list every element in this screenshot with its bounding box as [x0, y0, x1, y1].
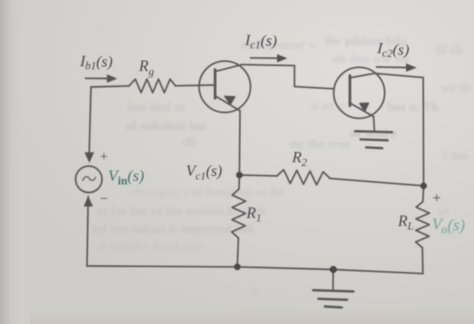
- svg-text:dli: dli: [182, 134, 197, 149]
- wire: bottom rail: [87, 266, 423, 274]
- svg-text:f dm: f dm: [443, 148, 469, 163]
- current arrow Ib1: [86, 75, 117, 83]
- wire: R2 to right node: [330, 178, 424, 185]
- Q2 collector lead: [350, 73, 375, 78]
- wire: Q2 collector to top-right corner: [375, 73, 424, 77]
- arrow into source (bottom, pointing up): [84, 197, 92, 207]
- wire: Q1 collector to step to Q2 base: [242, 65, 334, 89]
- svg-text:A: A: [250, 286, 258, 298]
- resistor R1: [232, 189, 246, 238]
- svg-text:+: +: [100, 150, 108, 165]
- transistor Q1 circle: [199, 61, 250, 112]
- Q1 base lead: [199, 84, 215, 86]
- wire: node Vc1 to R2: [239, 174, 277, 177]
- svg-text:nl milsiinti lno: nl milsiinti lno: [126, 118, 206, 133]
- wire: right vertical (top): [422, 78, 424, 186]
- voltage source Vin circle: [76, 166, 102, 192]
- svg-text:−: −: [100, 192, 108, 207]
- Q2 emitter lead: [350, 103, 374, 117]
- resistor Rg: [129, 79, 175, 93]
- svg-text:a trolsler forsktion: a trolsler forsktion: [100, 238, 204, 253]
- Q1 base bar: [214, 70, 217, 99]
- wire: R1 to bottom rail: [237, 238, 238, 267]
- svg-text:+: +: [433, 191, 441, 207]
- Q1 emitter lead: [215, 96, 240, 111]
- node: RL top junction dot: [420, 183, 427, 190]
- Q1 collector lead: [215, 65, 242, 72]
- svg-text:Ic1(s): Ic1(s): [244, 32, 277, 52]
- wire: right node down to RL: [422, 186, 425, 202]
- svg-text:Ib1(s): Ib1(s): [79, 53, 113, 73]
- Q2 base bar: [349, 76, 352, 106]
- wire: top-left horizontal from corner to Rg: [91, 86, 129, 87]
- arrow into source (top, pointing down): [85, 153, 94, 163]
- svg-text:lmi iiml nt: lmi iiml nt: [128, 99, 186, 114]
- svg-text:ill sh: ill sh: [436, 42, 463, 57]
- svg-text:sbnoqsar s ni benjizsb or lte: sbnoqsar s ni benjizsb or lte: [130, 184, 285, 199]
- node: ground stem junction dot: [330, 266, 337, 273]
- wire: Q2 emitter stem to ground: [373, 117, 376, 131]
- Q2 emitter arrowhead: [360, 103, 369, 112]
- resistor RL: [416, 202, 430, 248]
- current arrow Ic2: [377, 64, 416, 72]
- ground (bottom center): [313, 290, 353, 291]
- circuit ink: [76, 55, 430, 308]
- Q1 emitter arrowhead: [225, 96, 235, 104]
- wire: Rg to Q1 base: [175, 84, 199, 87]
- node: R1 bottom junction dot: [234, 264, 241, 271]
- resistor R2: [277, 170, 330, 185]
- current arrow Ic1: [251, 55, 287, 63]
- transistor Q2 circle: [334, 67, 385, 118]
- wire: RL to bottom rail: [421, 248, 424, 274]
- node Vc1 junction dot: [236, 172, 243, 179]
- svg-text:mf the subsct is importsd t: mf the subsct is importsd tnli: [92, 221, 254, 236]
- tilde inside source: [83, 177, 96, 181]
- ground (under Q2): [355, 131, 392, 132]
- wire: ground stem (bottom center): [332, 270, 334, 290]
- svg-text:wr tb: wr tb: [441, 80, 471, 95]
- svg-text:but n. Th: but n. Th: [387, 99, 439, 114]
- wire: left vertical (top): [89, 87, 91, 153]
- wire: left vertical (bottom): [87, 196, 88, 266]
- wire: node Vc1 down to R1: [239, 111, 240, 189]
